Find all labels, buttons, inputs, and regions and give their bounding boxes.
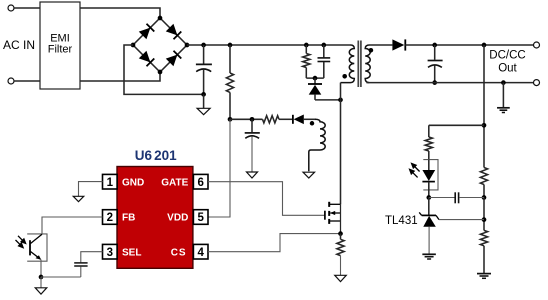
ground aux capacitor: [247, 172, 258, 178]
optocoupler LED: [428, 160, 430, 170]
snubber resistor R2: [305, 45, 307, 54]
node divider/ref: [482, 217, 487, 222]
node drain / primary bottom: [338, 98, 343, 103]
wire VDD node to pin 5: [208, 119, 230, 217]
svg-text:1: 1: [107, 177, 114, 189]
wire feedback sense line: [483, 45, 485, 168]
ground opto emitter: [40, 277, 42, 288]
svg-text:U6201: U6201: [135, 148, 177, 163]
opto LED bypass bracket: [423, 160, 438, 190]
node snubber cap top: [321, 43, 326, 48]
node output cap bottom: [432, 80, 437, 85]
node output ground tap: [501, 80, 506, 85]
node snubber resistor top: [304, 43, 309, 48]
wire divider middle: [483, 198, 485, 231]
wire terminal-bottom to EMI filter: [14, 80, 40, 82]
lower divider resistor R4: [480, 230, 487, 245]
transformer primary winding: [341, 45, 355, 83]
node LED cathode: [426, 195, 431, 200]
output terminal (positive): [534, 42, 540, 48]
svg-text:CS: CS: [171, 247, 187, 258]
node startup resistor top: [228, 43, 233, 48]
wire tap to LED resistor: [429, 124, 484, 126]
output capacitor C3: [434, 45, 436, 60]
bridge diode (upper-left): [139, 28, 151, 40]
svg-text:AC IN: AC IN: [3, 38, 35, 52]
pin 6 box: [193, 174, 208, 189]
node snubber bottom: [313, 76, 318, 81]
node bridge bottom: [158, 70, 163, 75]
pin 5 box: [193, 210, 208, 225]
bridge rectifier frame: [133, 18, 187, 72]
ground aux winding: [303, 172, 315, 178]
primary phase dot: [342, 74, 347, 79]
secondary phase dot: [369, 48, 374, 53]
output terminal (negative): [534, 80, 540, 86]
transformer secondary winding: [365, 45, 370, 83]
svg-text:2: 2: [107, 212, 113, 224]
wire EMI filter to bridge top vertex: [80, 8, 160, 18]
svg-text:6: 6: [197, 177, 203, 189]
ground source resistor: [335, 275, 347, 281]
aux series resistor R7: [263, 116, 280, 123]
wire bridge negative return: [124, 45, 204, 94]
secondary ground (output): [502, 83, 504, 108]
wire pin 2 to optocoupler: [42, 217, 103, 234]
pin 4 box: [193, 244, 208, 259]
AC input terminal (top): [8, 5, 14, 11]
svg-text:5: 5: [197, 212, 204, 224]
node divider/cap: [482, 195, 487, 200]
node output cap top: [432, 43, 437, 48]
wire SEL cap to emitter junction: [41, 276, 81, 278]
node bulk cap bottom: [201, 92, 206, 97]
node bridge right: [185, 43, 190, 48]
svg-text:4: 4: [197, 247, 204, 259]
ground pin 1: [73, 196, 84, 201]
wire DC bus rail: [187, 44, 351, 46]
aux rectifier diode D7: [292, 115, 294, 124]
node bulk cap top: [201, 43, 206, 48]
EMI filter block: [40, 2, 80, 89]
wire clamp diode anode to drain node: [315, 99, 341, 101]
SEL capacitor C5: [74, 262, 87, 264]
wire pin 1 to ground: [79, 182, 103, 197]
node bridge left: [131, 43, 136, 48]
wire VDD node to aux network: [230, 118, 263, 120]
LED emission arrows: [410, 164, 420, 178]
wire TL431 anode: [428, 227, 430, 254]
bridge diode (upper-right): [166, 24, 178, 36]
bridge diode (lower-right): [166, 55, 178, 67]
node feedback tap: [482, 43, 487, 48]
pin 3 box: [103, 244, 118, 259]
aux filter capacitor C6: [251, 119, 253, 132]
transformer core: [357, 41, 359, 88]
wire drain from clamp node: [340, 100, 342, 204]
wire secondary top to output diode: [370, 44, 393, 46]
wire TL431 ref to divider: [439, 219, 484, 221]
wire pin 4 to current sense: [208, 234, 341, 252]
wire snubber bottom join: [306, 77, 324, 79]
output diode D6: [392, 39, 404, 50]
upper divider resistor R3: [480, 168, 487, 185]
optocoupler transistor bracket: [27, 234, 47, 261]
bulk capacitor C1: [203, 45, 205, 64]
svg-text:GATE: GATE: [161, 177, 188, 188]
aux winding: [309, 119, 325, 171]
ground bulk cap: [203, 94, 205, 108]
light arrows into phototransistor: [16, 236, 26, 248]
svg-text:TL431: TL431: [385, 215, 418, 227]
wire terminal-top to EMI filter: [14, 7, 40, 9]
optocoupler phototransistor Q1: [29, 240, 31, 255]
current sense resistor R6: [340, 234, 342, 240]
svg-text:SEL: SEL: [122, 247, 141, 258]
pin 2 box: [103, 210, 118, 225]
svg-text:VDD: VDD: [167, 213, 188, 224]
svg-text:Filter: Filter: [48, 44, 73, 56]
wire primary bottom to drain node: [340, 83, 342, 100]
wire pin 3 to capacitor: [81, 252, 103, 263]
bridge diode (lower-left): [139, 51, 151, 63]
svg-text:FB: FB: [122, 213, 135, 224]
aux winding phase dot: [310, 121, 315, 126]
controller IC U6201 body: [117, 167, 193, 269]
svg-text:Out: Out: [498, 63, 517, 75]
node emitter/SEL-cap junction: [39, 275, 44, 280]
wire EMI filter to bridge bottom vertex: [80, 72, 160, 81]
feedback capacitor C4: [429, 197, 455, 199]
pin 1 box: [103, 174, 118, 189]
wire pin 6 to MOSFET gate: [208, 182, 325, 216]
svg-text:DC/CC: DC/CC: [489, 50, 525, 62]
secondary ground (divider): [477, 273, 491, 275]
svg-text:3: 3: [107, 247, 113, 259]
secondary ground (TL431): [422, 253, 436, 255]
wire LED cathode to TL431: [428, 198, 430, 216]
node LED branch tap: [482, 123, 487, 128]
node source/CS: [338, 231, 343, 236]
wire output negative rail: [366, 82, 533, 84]
snubber capacitor C2: [323, 45, 325, 57]
node bridge top: [158, 16, 163, 21]
svg-text:GND: GND: [122, 177, 144, 188]
LED series resistor R5: [428, 125, 430, 137]
clamp diode D5: [314, 78, 316, 84]
node aux cap: [250, 117, 255, 122]
wire output positive rail: [405, 44, 533, 46]
shunt regulator TL431 U2: [422, 214, 436, 216]
AC input terminal (bottom): [8, 78, 14, 84]
startup resistor R1: [229, 45, 231, 73]
MOSFET Q2: [325, 202, 341, 234]
node VDD: [228, 117, 233, 122]
